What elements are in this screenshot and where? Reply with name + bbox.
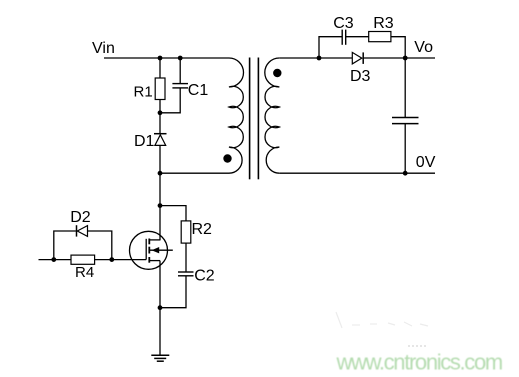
- wire D2 left leg: [54, 231, 76, 260]
- wire snubber left leg: [319, 37, 342, 58]
- wire D2 right leg: [88, 231, 112, 260]
- resistor R3: [369, 32, 391, 42]
- wire C1 bottom return: [160, 88, 180, 113]
- transformer secondary polarity dot: [273, 69, 281, 77]
- wire C2 bottom return: [160, 276, 186, 308]
- ground symbol: [151, 355, 169, 361]
- capacitor C1: [172, 84, 188, 88]
- diode D1: [154, 134, 167, 146]
- resistor R1: [155, 78, 165, 100]
- wire R1 bottom: [159, 100, 161, 134]
- svg-text:D3: D3: [350, 68, 371, 85]
- svg-text:R3: R3: [373, 15, 394, 32]
- svg-text:D1: D1: [134, 133, 155, 150]
- wire output cap bottom: [404, 124, 406, 174]
- transformer primary polarity dot: [223, 154, 231, 162]
- transistor Q1 channel dashes: [148, 239, 150, 263]
- junction R2 branch top: [158, 203, 163, 208]
- wire secondary top to D3: [279, 57, 352, 59]
- junction Vin/R1: [158, 56, 163, 61]
- junction Vo: [403, 56, 408, 61]
- wire gate right segment: [95, 259, 147, 261]
- junction gate right: [109, 257, 114, 262]
- wire D3 to Vo: [363, 57, 435, 59]
- resistor R2: [181, 221, 191, 243]
- wire C1 top: [179, 58, 181, 83]
- diode D2: [77, 225, 88, 236]
- junction Vin/C1: [178, 56, 183, 61]
- capacitor Cout: [392, 118, 419, 124]
- wire drain line (D1 to MOSFET drain): [159, 145, 161, 240]
- transistor Q1 drain connect: [149, 239, 160, 241]
- capacitor C2: [178, 272, 194, 276]
- junction snubber left: [317, 56, 322, 61]
- svg-text:C2: C2: [194, 268, 215, 285]
- svg-text:R4: R4: [75, 264, 94, 281]
- wire source to ground: [159, 261, 161, 356]
- junction 0V: [403, 171, 408, 176]
- wire output cap top: [404, 58, 406, 117]
- wire primary bottom: [160, 172, 229, 174]
- svg-text:Vin: Vin: [92, 40, 115, 57]
- wire R1 top: [159, 58, 161, 78]
- wire Vin rail: [104, 57, 229, 59]
- junction gate left: [51, 257, 56, 262]
- diode D3: [352, 52, 363, 64]
- capacitor C3: [342, 30, 346, 45]
- watermark ghost marks: [336, 312, 428, 328]
- wire R2 to C2: [185, 243, 187, 272]
- transistor Q1 MOSFET body circle: [130, 231, 168, 269]
- transformer core: [250, 58, 259, 180]
- transistor Q1 body line with arrow: [149, 249, 173, 251]
- svg-text:R1: R1: [134, 83, 153, 100]
- svg-text:C1: C1: [188, 82, 209, 99]
- wire C3 to R3: [346, 36, 369, 38]
- wire 0V rail: [279, 172, 435, 174]
- svg-text:D2: D2: [70, 209, 91, 226]
- svg-text:R2: R2: [192, 221, 213, 238]
- resistor R4: [71, 255, 95, 264]
- svg-text:Vo: Vo: [414, 39, 433, 56]
- transistor Q1 source connect: [149, 260, 160, 262]
- wire snubber right leg: [391, 37, 405, 58]
- wire R2 branch top: [160, 206, 186, 221]
- svg-text:www.cntronics.com: www.cntronics.com: [336, 349, 502, 374]
- transistor Q1 gate bar: [145, 239, 147, 260]
- svg-text:0V: 0V: [416, 154, 436, 171]
- junction source bottom: [158, 305, 163, 310]
- junction R1/C1: [158, 110, 163, 115]
- transformer T1 primary winding: [229, 58, 243, 173]
- watermark ghost dots: [408, 345, 427, 347]
- svg-text:C3: C3: [333, 15, 354, 32]
- transformer T1 secondary winding: [265, 58, 280, 173]
- wire gate left segment: [39, 259, 72, 261]
- junction primary bottom: [158, 171, 163, 176]
